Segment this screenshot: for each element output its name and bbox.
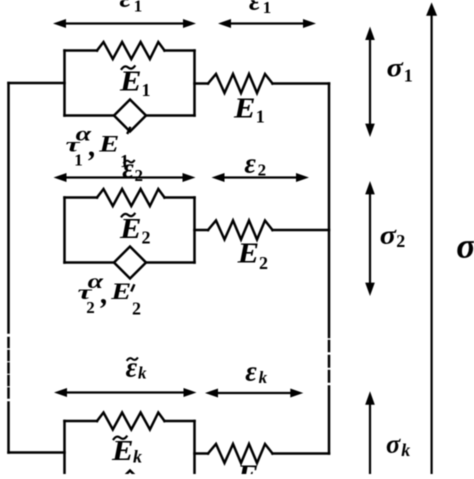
box branch 1 top edge segments	[65, 49, 195, 52]
box branch k top edge segments	[65, 420, 195, 423]
label E2	[236, 238, 268, 273]
label tau2 alpha, E2 prime	[78, 271, 142, 319]
svg-text:E: E	[233, 92, 256, 124]
arrowheads sigma2	[365, 181, 375, 194]
wire to spring E1	[195, 82, 209, 85]
svg-text:ε: ε	[126, 352, 138, 383]
svg-text:σ: σ	[387, 53, 404, 82]
label e~k	[126, 352, 147, 383]
svg-text:E: E	[236, 238, 259, 270]
spring-pot diamond branch 1	[114, 100, 146, 132]
svg-text:ε: ε	[249, 0, 261, 17]
arrowheads e2	[212, 173, 225, 182]
svg-text:k: k	[401, 440, 410, 460]
strain arrow ek (double)	[216, 392, 292, 394]
svg-text:2: 2	[132, 299, 141, 319]
strain arrow e~2 (double)	[65, 176, 185, 178]
stress arrow sigmak	[369, 402, 371, 474]
arrowhead sigmak	[365, 391, 375, 404]
svg-text:ε: ε	[245, 357, 257, 388]
strain arrow e~1 (double)	[64, 22, 185, 24]
spring E~1	[97, 42, 165, 59]
box branch 2 top edge segments	[65, 196, 195, 199]
arrowheads e1	[218, 19, 231, 28]
svg-text:2: 2	[86, 298, 95, 317]
svg-text:,: ,	[100, 278, 109, 311]
box branch 2 bottom edge segments	[65, 261, 195, 264]
spring E~k	[97, 413, 165, 430]
svg-text:E: E	[98, 132, 119, 157]
box branch k left side	[63, 421, 66, 474]
svg-text:ε: ε	[122, 154, 134, 185]
svg-text:k: k	[138, 364, 147, 383]
wire left stub branch k	[9, 451, 65, 454]
label e2	[244, 149, 266, 180]
label sigma2	[380, 221, 406, 251]
label E~1	[119, 65, 151, 100]
arrowhead sigma global	[426, 2, 437, 15]
svg-text:E: E	[119, 213, 142, 245]
svg-text:ε: ε	[244, 149, 256, 180]
strain arrow e1 (double)	[229, 22, 305, 24]
svg-text:1: 1	[256, 107, 265, 127]
svg-text:E: E	[110, 279, 131, 304]
svg-text:k: k	[259, 368, 268, 387]
wire left vertical bus (solid upper)	[7, 83, 10, 333]
box branch 1 right side	[193, 51, 196, 116]
svg-text:ε: ε	[120, 0, 132, 13]
wire right vertical bus (solid upper)	[328, 84, 331, 338]
svg-text:σ: σ	[456, 225, 474, 265]
svg-text:E: E	[236, 460, 259, 475]
arrowheads ek	[205, 389, 218, 398]
svg-text:σ: σ	[380, 221, 397, 250]
svg-text:σ: σ	[386, 430, 401, 459]
strain arrow e~k (double)	[65, 391, 186, 393]
strain arrow e2 (double)	[223, 176, 299, 178]
spring E1	[208, 74, 273, 93]
label sigma (global)	[456, 225, 474, 265]
wire left vertical bus (dashed middle)	[7, 338, 10, 398]
arrowheads e~1	[53, 19, 66, 28]
svg-text:k: k	[133, 447, 142, 467]
label sigmak	[386, 430, 410, 460]
wire from spring E1 to right bus	[273, 82, 330, 85]
wire to spring E2	[195, 229, 209, 232]
svg-text:2: 2	[396, 231, 405, 251]
label ek	[245, 357, 267, 388]
wire left vertical bus (solid lower)	[7, 403, 10, 453]
spring-pot diamond branch k (top tip visible)	[117, 471, 144, 479]
svg-text:2: 2	[135, 166, 144, 185]
svg-text:,: ,	[88, 130, 97, 163]
label e~2	[122, 154, 143, 186]
svg-text:1: 1	[74, 150, 83, 169]
label E~2	[119, 213, 151, 248]
arrowheads sigma1	[365, 27, 375, 40]
arrowheads e~k	[54, 388, 67, 397]
wire left stub branch 1	[9, 82, 65, 85]
svg-text:2: 2	[258, 161, 267, 180]
stress arrow sigma (global)	[431, 13, 433, 474]
svg-text:1: 1	[134, 0, 143, 15]
spring E2	[208, 221, 273, 240]
stress arrow sigma2 (double)	[369, 192, 371, 285]
label sigma1	[387, 53, 413, 86]
wire to spring Ek	[195, 452, 209, 455]
stress arrow sigma1 (double)	[369, 38, 371, 126]
box branch 1 left side	[63, 51, 66, 116]
spring Ek	[208, 444, 273, 463]
spring-pot diamond branch 2	[114, 247, 146, 279]
box branch 2 right side	[193, 198, 196, 263]
svg-text:1: 1	[142, 80, 151, 100]
wire from spring Ek to right bus	[273, 452, 330, 455]
wire right vertical bus (dashed middle)	[328, 341, 331, 382]
box branch k right side	[193, 421, 196, 474]
svg-text:2: 2	[142, 228, 151, 248]
arrowheads e~2	[54, 173, 67, 182]
box branch 2 left side	[63, 198, 66, 263]
label e~1 (top, partially cut)	[120, 0, 143, 15]
svg-text:2: 2	[259, 253, 268, 273]
spring E~2	[97, 189, 165, 206]
box branch 1 bottom edge segments	[65, 114, 195, 117]
wire from spring E2 to right bus	[273, 229, 330, 232]
label E~k	[111, 435, 142, 467]
label Ek (bottom, partially cut)	[236, 460, 259, 479]
label E1	[233, 92, 265, 126]
wire right vertical bus (solid lower)	[328, 387, 331, 454]
svg-text:E: E	[119, 65, 142, 97]
svg-text:1: 1	[263, 0, 272, 17]
svg-text:1: 1	[404, 66, 413, 86]
label e1 (top right, partially cut)	[249, 0, 271, 17]
label tau1 alpha, E1 prime	[66, 123, 131, 171]
